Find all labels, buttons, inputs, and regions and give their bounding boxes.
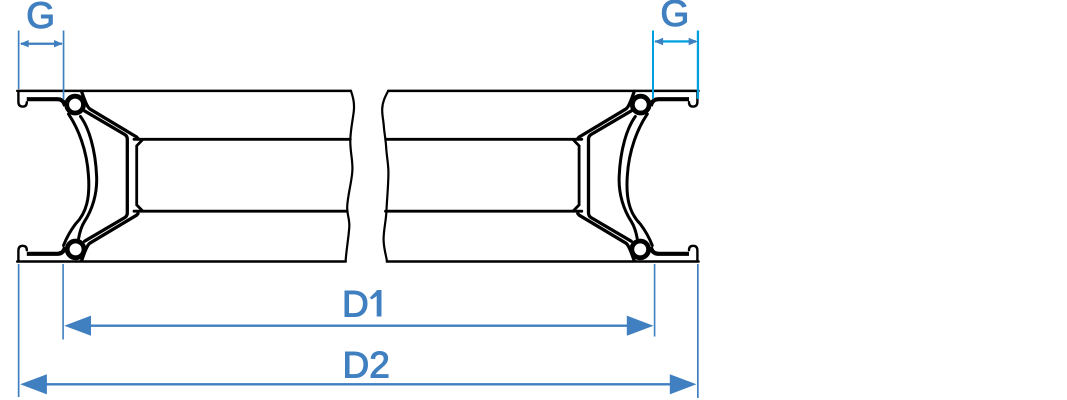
- break wavy line right: [382, 91, 388, 261]
- bore top line right: [386, 138, 582, 141]
- G right extension line inner: [652, 31, 654, 100]
- D2 left extension line: [18, 264, 20, 397]
- bore bottom line right: [386, 210, 582, 213]
- garter spring ring bottom-left: [67, 241, 84, 258]
- D1 left extension line: [62, 264, 64, 340]
- bore chamfer contour left: [137, 140, 143, 211]
- break wavy line left: [346, 91, 354, 261]
- membrane inner curve left: [79, 117, 97, 239]
- bottom outer line left: [17, 260, 345, 263]
- flex arm lower diagonal left: [82, 214, 138, 261]
- dimension D1: [62, 264, 655, 340]
- bore top line left: [134, 138, 350, 141]
- flex arm upper diagonal left: [82, 92, 138, 139]
- svg-text:G: G: [26, 0, 55, 36]
- G right dimension line: [655, 40, 696, 42]
- garter spring ring top-left: [67, 96, 84, 113]
- bore chamfer contour right: [573, 140, 579, 211]
- svg-text:D2: D2: [343, 344, 390, 385]
- dimension D2: [18, 264, 699, 398]
- G right arrowhead right: [689, 38, 698, 45]
- G left extension line outer: [18, 31, 20, 90]
- top outer line right: [388, 90, 698, 93]
- G right extension line outer: [697, 31, 699, 100]
- D1 arrowhead right: [627, 316, 654, 336]
- left half structural group: seal cross-section left side: [18, 91, 138, 262]
- outer case hook top-left: [18, 91, 26, 107]
- D1 right extension line: [654, 264, 656, 337]
- D1 arrowhead left: [64, 316, 91, 336]
- D2 arrowhead left: [20, 374, 47, 394]
- G left arrowhead left: [20, 40, 29, 47]
- dimension G left: [18, 0, 65, 99]
- D2 arrowhead right: [670, 374, 697, 394]
- bore bottom line left: [134, 210, 347, 213]
- seal lip bottom-left: [27, 247, 65, 254]
- G right arrowhead left: [654, 38, 663, 45]
- right half structural group (mirror): [578, 91, 698, 262]
- seal lip top-left: [27, 99, 65, 106]
- svg-text:G: G: [661, 0, 690, 34]
- flex arm outer edge left: [85, 111, 128, 241]
- G left arrowhead right: [54, 40, 63, 47]
- D1 dimension line: [89, 325, 629, 327]
- top outer line left: [17, 90, 351, 93]
- svg-text:D: D: [342, 284, 369, 325]
- D1 digit one: [377, 290, 382, 317]
- D2 right extension line: [697, 264, 699, 398]
- membrane outer curve left: [64, 114, 89, 246]
- bottom outer line right: [387, 260, 699, 263]
- G left extension line inner: [63, 31, 65, 100]
- G left dimension line: [21, 43, 62, 45]
- D2 dimension line: [45, 383, 671, 385]
- dimension G right: [652, 0, 699, 99]
- outer case hook bottom-left: [18, 246, 26, 262]
